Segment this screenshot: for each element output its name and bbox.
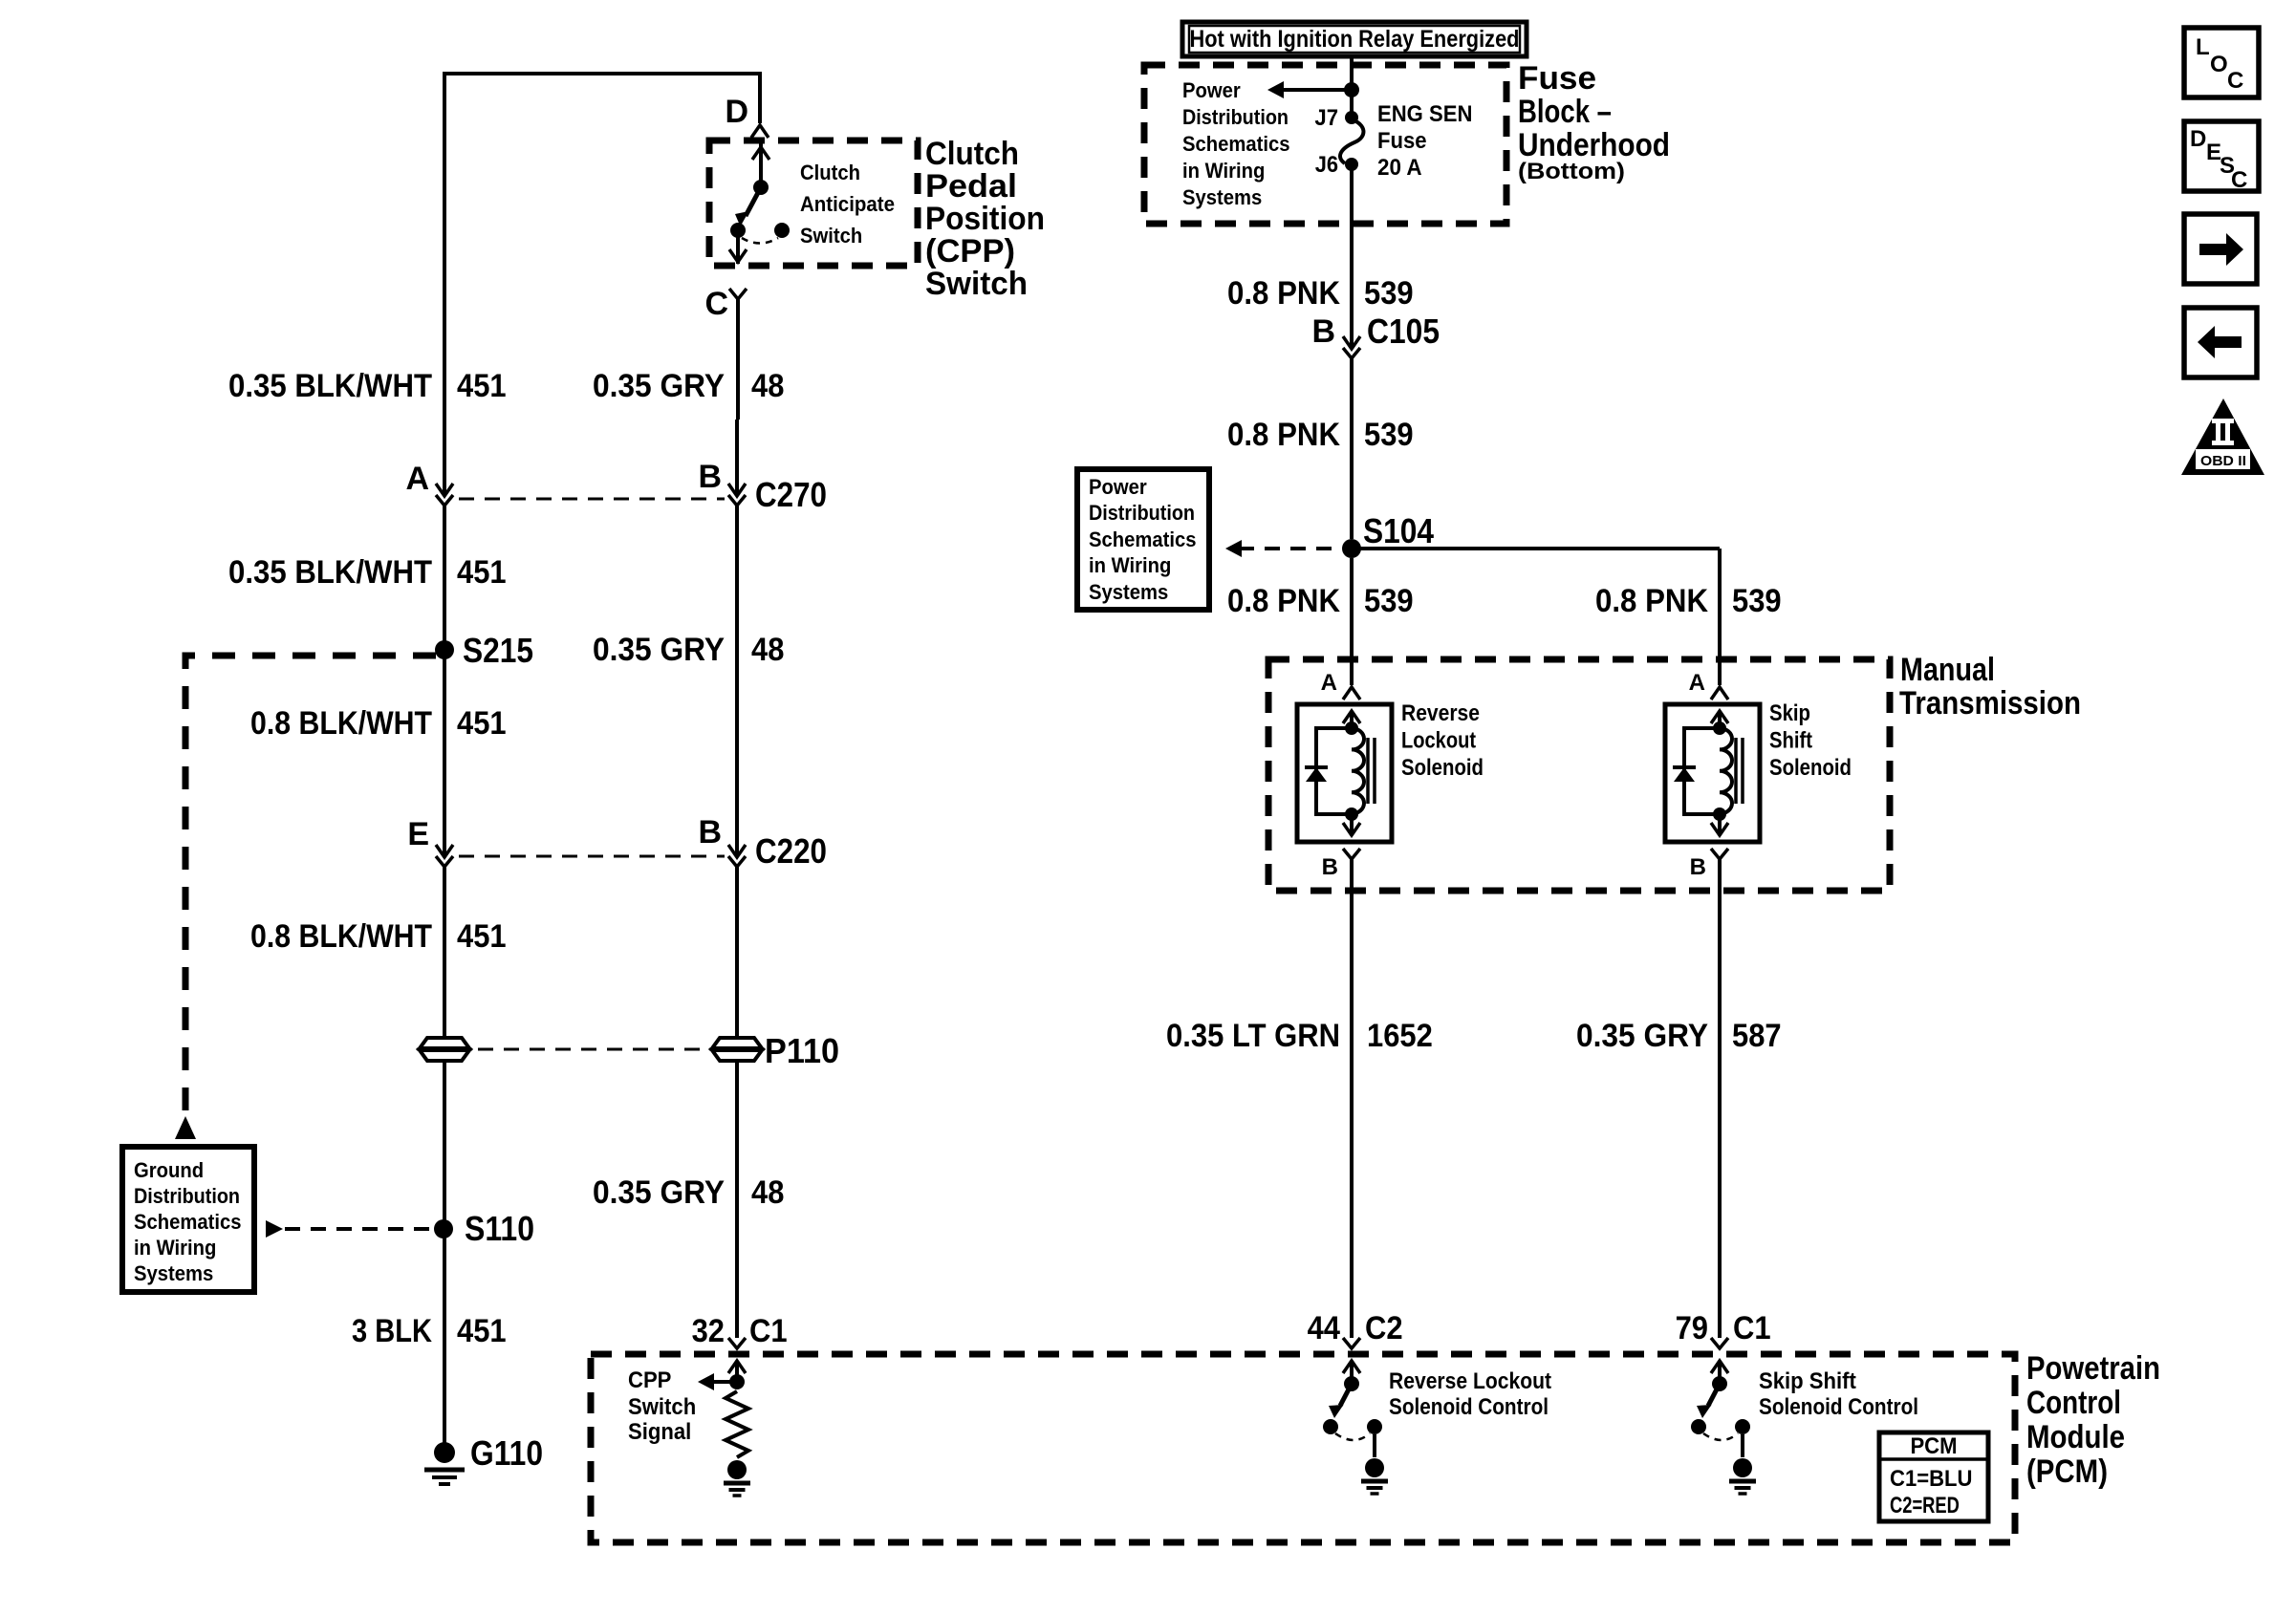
svg-text:Distribution: Distribution xyxy=(1182,105,1289,129)
svg-text:48: 48 xyxy=(751,1174,784,1211)
svg-text:Manual: Manual xyxy=(1900,652,1995,688)
svg-text:C: C xyxy=(2231,167,2247,193)
svg-text:O: O xyxy=(2210,52,2228,77)
svg-text:Power: Power xyxy=(1089,475,1147,499)
svg-text:L: L xyxy=(2196,34,2210,60)
svg-text:539: 539 xyxy=(1364,275,1414,312)
svg-text:539: 539 xyxy=(1364,417,1414,453)
svg-text:Skip Shift: Skip Shift xyxy=(1759,1368,1856,1394)
svg-text:Transmission: Transmission xyxy=(1899,685,2081,721)
svg-text:0.35 GRY: 0.35 GRY xyxy=(593,1174,725,1211)
svg-text:Switch: Switch xyxy=(925,266,1028,302)
svg-text:451: 451 xyxy=(457,705,507,742)
svg-text:in Wiring: in Wiring xyxy=(1089,553,1171,577)
svg-text:Reverse: Reverse xyxy=(1401,700,1480,726)
svg-text:Pedal: Pedal xyxy=(925,168,1017,205)
svg-text:Solenoid: Solenoid xyxy=(1769,755,1852,781)
svg-text:0.8 PNK: 0.8 PNK xyxy=(1595,583,1708,619)
svg-text:Power: Power xyxy=(1182,78,1241,102)
svg-text:Systems: Systems xyxy=(1182,185,1262,209)
svg-text:J6: J6 xyxy=(1315,152,1338,178)
svg-text:(PCM): (PCM) xyxy=(2026,1453,2108,1490)
svg-text:in Wiring: in Wiring xyxy=(134,1236,216,1260)
svg-text:(Bottom): (Bottom) xyxy=(1518,159,1625,184)
svg-text:Distribution: Distribution xyxy=(1089,501,1195,525)
svg-text:0.35 LT GRN: 0.35 LT GRN xyxy=(1166,1018,1340,1054)
svg-text:Lockout: Lockout xyxy=(1401,728,1476,754)
svg-text:C220: C220 xyxy=(755,831,827,871)
svg-text:Hot with Ignition Relay Energi: Hot with Ignition Relay Energized xyxy=(1190,26,1520,53)
svg-text:A: A xyxy=(1689,670,1705,696)
svg-text:Skip: Skip xyxy=(1769,700,1810,726)
svg-text:in Wiring: in Wiring xyxy=(1182,159,1265,183)
svg-text:J7: J7 xyxy=(1314,105,1338,131)
svg-text:S215: S215 xyxy=(463,631,533,670)
svg-text:0.8 BLK/WHT: 0.8 BLK/WHT xyxy=(250,705,432,742)
svg-text:Clutch: Clutch xyxy=(800,161,860,184)
svg-text:Fuse: Fuse xyxy=(1377,128,1427,154)
svg-text:(CPP): (CPP) xyxy=(925,233,1015,269)
svg-text:S104: S104 xyxy=(1363,511,1434,550)
svg-text:Position: Position xyxy=(925,201,1045,237)
svg-text:Switch: Switch xyxy=(800,224,862,248)
svg-text:C270: C270 xyxy=(755,475,827,514)
svg-text:B: B xyxy=(698,814,722,851)
svg-text:C1=BLU: C1=BLU xyxy=(1890,1466,1973,1492)
svg-text:539: 539 xyxy=(1364,583,1414,619)
svg-text:451: 451 xyxy=(457,368,507,404)
svg-text:Switch: Switch xyxy=(628,1394,696,1420)
svg-text:Systems: Systems xyxy=(1089,580,1168,604)
svg-text:48: 48 xyxy=(751,368,784,404)
svg-text:0.8 BLK/WHT: 0.8 BLK/WHT xyxy=(250,918,432,955)
svg-text:S110: S110 xyxy=(465,1209,534,1248)
svg-text:451: 451 xyxy=(457,554,507,591)
svg-text:D: D xyxy=(725,94,748,130)
svg-text:539: 539 xyxy=(1732,583,1782,619)
svg-text:Ground: Ground xyxy=(134,1158,204,1182)
svg-text:Shift: Shift xyxy=(1769,728,1812,754)
svg-text:CPP: CPP xyxy=(628,1367,671,1393)
svg-text:0.8 PNK: 0.8 PNK xyxy=(1227,417,1340,453)
svg-text:Block –: Block – xyxy=(1518,94,1612,130)
svg-text:32: 32 xyxy=(692,1313,725,1349)
svg-text:C2: C2 xyxy=(1365,1310,1403,1346)
svg-text:D: D xyxy=(2190,126,2206,152)
svg-text:Systems: Systems xyxy=(134,1261,213,1285)
svg-text:E: E xyxy=(407,816,429,852)
svg-text:Signal: Signal xyxy=(628,1419,691,1445)
svg-text:C: C xyxy=(704,286,728,322)
svg-text:587: 587 xyxy=(1732,1018,1782,1054)
svg-text:0.35 GRY: 0.35 GRY xyxy=(593,368,725,404)
svg-text:PCM: PCM xyxy=(1910,1433,1957,1459)
svg-text:3 BLK: 3 BLK xyxy=(352,1313,432,1349)
svg-text:B: B xyxy=(1311,313,1335,350)
svg-text:B: B xyxy=(1322,854,1338,880)
svg-text:C1: C1 xyxy=(749,1313,788,1349)
svg-text:0.8 PNK: 0.8 PNK xyxy=(1227,583,1340,619)
svg-text:P110: P110 xyxy=(765,1031,839,1070)
svg-text:G110: G110 xyxy=(470,1433,543,1473)
svg-text:A: A xyxy=(405,461,429,497)
svg-text:Schematics: Schematics xyxy=(1182,132,1290,156)
svg-text:Control: Control xyxy=(2026,1385,2121,1421)
svg-text:0.35 BLK/WHT: 0.35 BLK/WHT xyxy=(228,554,432,591)
svg-text:C2=RED: C2=RED xyxy=(1890,1493,1960,1518)
svg-text:Distribution: Distribution xyxy=(134,1184,240,1208)
svg-text:Schematics: Schematics xyxy=(1089,528,1197,551)
svg-text:451: 451 xyxy=(457,918,507,955)
svg-text:451: 451 xyxy=(457,1313,507,1349)
svg-text:Solenoid Control: Solenoid Control xyxy=(1389,1394,1549,1420)
svg-text:Module: Module xyxy=(2026,1419,2125,1455)
svg-text:Fuse: Fuse xyxy=(1518,60,1596,97)
svg-text:C1: C1 xyxy=(1733,1310,1771,1346)
svg-text:44: 44 xyxy=(1308,1310,1340,1346)
svg-text:OBD II: OBD II xyxy=(2200,453,2246,469)
svg-text:C105: C105 xyxy=(1367,312,1440,351)
svg-text:1652: 1652 xyxy=(1367,1018,1433,1054)
svg-text:48: 48 xyxy=(751,632,784,668)
svg-text:Solenoid Control: Solenoid Control xyxy=(1759,1394,1918,1420)
svg-text:Reverse Lockout: Reverse Lockout xyxy=(1389,1368,1551,1394)
svg-text:ENG SEN: ENG SEN xyxy=(1377,101,1472,127)
svg-text:C: C xyxy=(2227,68,2243,94)
svg-text:Solenoid: Solenoid xyxy=(1401,755,1484,781)
svg-text:0.35 GRY: 0.35 GRY xyxy=(593,632,725,668)
svg-text:Anticipate: Anticipate xyxy=(800,192,895,216)
svg-text:B: B xyxy=(698,459,722,495)
svg-text:Schematics: Schematics xyxy=(134,1210,242,1234)
svg-text:B: B xyxy=(1690,854,1706,880)
svg-text:0.35 BLK/WHT: 0.35 BLK/WHT xyxy=(228,368,432,404)
svg-text:0.35 GRY: 0.35 GRY xyxy=(1576,1018,1708,1054)
svg-text:79: 79 xyxy=(1676,1310,1708,1346)
svg-text:A: A xyxy=(1321,670,1337,696)
svg-text:Powetrain: Powetrain xyxy=(2026,1350,2160,1387)
svg-text:20 A: 20 A xyxy=(1377,155,1422,181)
svg-text:0.8 PNK: 0.8 PNK xyxy=(1227,275,1340,312)
svg-text:Clutch: Clutch xyxy=(925,136,1019,172)
